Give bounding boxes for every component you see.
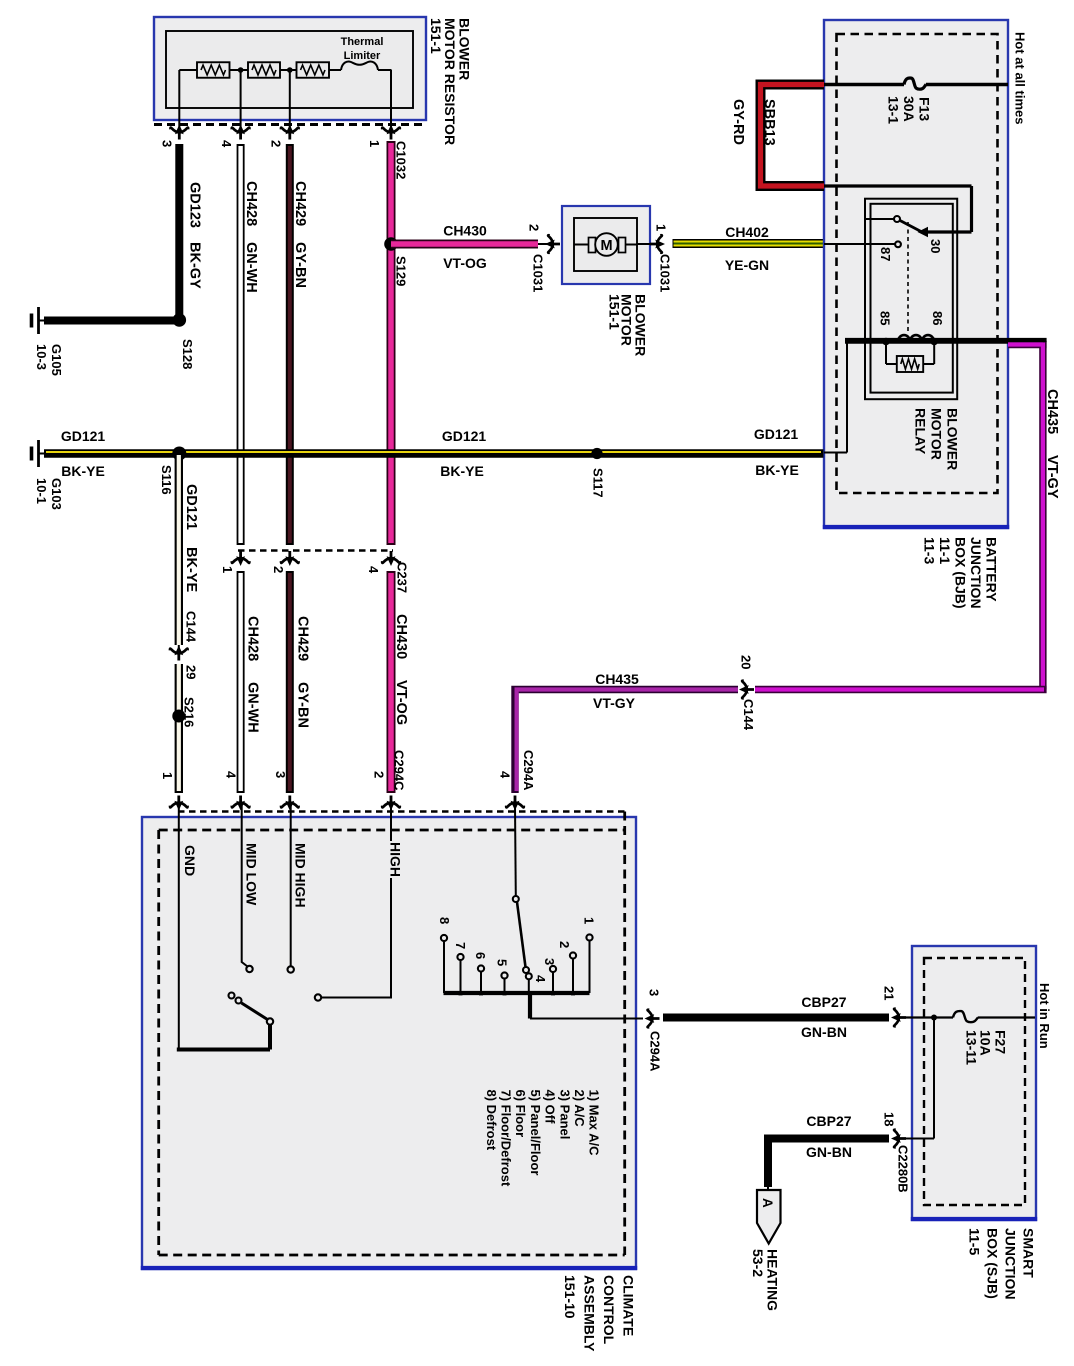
svg-text:VT-GY: VT-GY — [1044, 455, 1060, 499]
svg-text:Hot in Run: Hot in Run — [1037, 983, 1052, 1049]
svg-text:C237: C237 — [395, 562, 410, 593]
pin 1 C1032 — [382, 125, 400, 140]
splice S129 — [384, 237, 398, 251]
wire CH435 VT-GY from relay (bright) — [1008, 341, 1047, 349]
svg-text:GY-RD: GY-RD — [730, 99, 746, 145]
svg-text:BOX (BJB): BOX (BJB) — [953, 537, 969, 609]
coil dot right — [930, 338, 938, 346]
svg-text:C294A: C294A — [521, 750, 536, 791]
pin 3 C294C — [281, 796, 299, 811]
svg-text:86: 86 — [930, 311, 945, 325]
svg-text:4: 4 — [224, 771, 239, 779]
relay pin 87 — [824, 243, 895, 245]
svg-text:1: 1 — [160, 772, 175, 779]
climate fan switch arm — [242, 1003, 268, 1020]
svg-text:C144: C144 — [741, 699, 756, 731]
svg-text:VT-GY: VT-GY — [593, 695, 636, 711]
relay pin30 feed path — [824, 184, 972, 187]
svg-text:C1031: C1031 — [531, 254, 546, 292]
svg-text:4: 4 — [498, 771, 513, 779]
pin 2 C294C — [382, 796, 400, 811]
pin 4 C237 — [382, 551, 400, 566]
pin 21 SJB — [891, 1009, 906, 1027]
svg-text:S116: S116 — [159, 465, 174, 495]
pin 3 C1032 — [170, 125, 188, 140]
svg-text:2: 2 — [269, 140, 284, 147]
svg-text:3: 3 — [542, 958, 557, 965]
svg-text:G103: G103 — [49, 478, 64, 510]
resistor relay coil — [897, 356, 923, 372]
svg-text:2) A/C: 2) A/C — [572, 1090, 587, 1128]
svg-text:10-3: 10-3 — [34, 344, 49, 370]
svg-text:30: 30 — [928, 239, 943, 253]
svg-text:MID HIGH: MID HIGH — [293, 843, 309, 908]
svg-text:3: 3 — [273, 771, 288, 778]
wire motor to pin1 — [637, 243, 656, 245]
svg-text:SMART: SMART — [1021, 1228, 1037, 1278]
relay dashed link — [907, 222, 909, 334]
blower motor resistor box 151-1 — [154, 17, 426, 120]
svg-text:GN-WH: GN-WH — [243, 242, 259, 293]
svg-text:CH428: CH428 — [243, 181, 259, 226]
splice S128 — [173, 313, 187, 327]
svg-text:87: 87 — [878, 247, 893, 261]
junction dot b — [287, 67, 293, 73]
svg-text:18: 18 — [882, 1112, 897, 1126]
svg-text:CH430: CH430 — [443, 223, 487, 239]
svg-text:151-1: 151-1 — [607, 294, 623, 330]
resistor R-med2 — [297, 62, 330, 78]
connector C1032 dashed boundary — [154, 123, 426, 126]
wire CBP27 GN-BN lower — [768, 1139, 889, 1188]
svg-text:A: A — [760, 1198, 775, 1208]
svg-text:GY-BN: GY-BN — [295, 682, 311, 728]
svg-text:BOX (SJB): BOX (SJB) — [985, 1228, 1001, 1299]
svg-text:CONTROL: CONTROL — [601, 1275, 617, 1345]
pin 18 SJB — [891, 1130, 906, 1148]
svg-text:JUNCTION: JUNCTION — [968, 537, 984, 609]
svg-text:Limiter: Limiter — [344, 50, 381, 62]
svg-text:6) Floor: 6) Floor — [513, 1090, 528, 1138]
svg-text:4: 4 — [533, 975, 548, 983]
svg-text:BK-YE: BK-YE — [183, 547, 199, 592]
connector C144 CH435 — [739, 681, 754, 699]
SJB fuse F27 feed — [906, 1016, 953, 1018]
svg-text:BK-YE: BK-YE — [755, 462, 799, 478]
wire CH430 VT-OG lower — [387, 571, 396, 793]
svg-text:RELAY: RELAY — [913, 408, 929, 455]
svg-text:CH430: CH430 — [393, 614, 409, 659]
svg-text:10-1: 10-1 — [34, 478, 49, 504]
svg-text:20: 20 — [739, 655, 754, 669]
relay switch arm — [900, 221, 921, 232]
BJB internal link to GD121 — [846, 342, 848, 453]
coil dot left — [882, 338, 890, 346]
svg-text:1: 1 — [367, 140, 382, 147]
pin 1 C294C — [170, 796, 188, 811]
svg-text:2: 2 — [372, 771, 387, 778]
connector C144 inline — [170, 646, 188, 661]
resistor R-med1 — [248, 62, 280, 78]
svg-text:GND: GND — [182, 845, 198, 876]
svg-text:151-1: 151-1 — [428, 18, 444, 54]
splice S116 — [172, 447, 186, 461]
wire CH430 VT-OG upper vertical — [387, 141, 396, 545]
wire CH429 GY-BN lower — [286, 571, 294, 793]
relay coil line — [845, 339, 1009, 343]
relay pivot — [866, 218, 895, 220]
svg-text:4: 4 — [219, 140, 234, 148]
wire internal resistor chain — [179, 69, 197, 71]
svg-text:3: 3 — [647, 989, 662, 996]
svg-text:1: 1 — [582, 917, 597, 924]
svg-text:GD121: GD121 — [183, 484, 199, 530]
svg-text:8: 8 — [437, 917, 452, 924]
svg-text:MID LOW: MID LOW — [244, 843, 260, 906]
climate MID LOW circuit — [242, 806, 248, 967]
svg-text:13-1: 13-1 — [886, 96, 902, 124]
svg-text:S117: S117 — [591, 468, 606, 498]
svg-text:C294C: C294C — [392, 750, 407, 791]
splice S216 — [172, 710, 185, 723]
svg-text:30A: 30A — [901, 96, 917, 122]
pin 2 C1031 — [545, 235, 560, 253]
pin 1 C237 — [232, 551, 250, 566]
svg-text:CH435: CH435 — [1044, 389, 1060, 434]
svg-text:CH429: CH429 — [292, 181, 308, 226]
svg-text:4) Off: 4) Off — [543, 1090, 558, 1125]
blower motor relay outer box — [865, 199, 957, 400]
wire GD121 BK-YE horizontal — [44, 449, 824, 457]
svg-text:CBP27: CBP27 — [806, 1113, 851, 1129]
blower motor box 151-1 — [562, 206, 650, 284]
climate MID HIGH circuit — [290, 806, 292, 966]
svg-text:6: 6 — [473, 952, 488, 959]
svg-text:GN-BN: GN-BN — [801, 1024, 847, 1040]
svg-text:CH428: CH428 — [245, 616, 261, 661]
svg-text:C1032: C1032 — [394, 141, 409, 179]
hot at all times feed line with fuse F13 — [824, 83, 904, 86]
resistor assembly inner box — [166, 31, 413, 108]
pin 1 C1031 — [650, 235, 665, 253]
svg-text:85: 85 — [878, 311, 893, 325]
fuse F27 — [953, 1011, 978, 1022]
svg-text:29: 29 — [184, 665, 199, 679]
svg-text:SBB13: SBB13 — [761, 99, 777, 146]
svg-text:CH435: CH435 — [595, 671, 639, 687]
wire CH435 VT-GY left segment — [515, 690, 738, 794]
climate mode wiper feed — [514, 806, 517, 896]
svg-text:JUNCTION: JUNCTION — [1003, 1228, 1019, 1300]
svg-text:GD121: GD121 — [442, 428, 487, 444]
svg-text:13-11: 13-11 — [964, 1030, 980, 1065]
svg-text:S216: S216 — [182, 697, 197, 727]
svg-text:GD121: GD121 — [754, 426, 799, 442]
svg-text:GD123: GD123 — [187, 182, 203, 228]
svg-text:1: 1 — [220, 566, 235, 573]
svg-text:7: 7 — [453, 942, 468, 949]
wire CH428 GN-WH lower — [237, 571, 245, 793]
svg-text:VT-OG: VT-OG — [393, 680, 409, 725]
fuse F13 — [904, 78, 926, 89]
svg-text:11-3: 11-3 — [922, 537, 938, 564]
wire CH428 GN-WH upper vertical — [237, 144, 245, 545]
svg-text:HIGH: HIGH — [388, 842, 404, 877]
svg-text:53-2: 53-2 — [750, 1249, 766, 1277]
svg-text:Thermal: Thermal — [341, 36, 384, 48]
svg-text:2: 2 — [527, 224, 542, 231]
svg-text:151-10: 151-10 — [562, 1275, 578, 1319]
motor symbol M — [574, 244, 637, 246]
svg-text:S128: S128 — [180, 339, 195, 369]
svg-text:21: 21 — [882, 986, 897, 1000]
svg-text:S129: S129 — [394, 256, 409, 286]
svg-text:MOTOR: MOTOR — [929, 408, 945, 460]
svg-text:CH402: CH402 — [725, 224, 769, 240]
pin 4 C1032 — [232, 125, 250, 140]
svg-text:M: M — [600, 238, 612, 254]
svg-text:GN-WH: GN-WH — [245, 682, 261, 733]
wire GD123 to ground G105 — [44, 317, 179, 325]
svg-text:1) Max A/C: 1) Max A/C — [587, 1090, 602, 1157]
svg-text:C1031: C1031 — [658, 254, 673, 292]
svg-text:F27: F27 — [993, 1030, 1009, 1054]
wire CH402 YE-GN — [673, 239, 824, 248]
climate inner dashed boundary — [159, 829, 625, 832]
battery junction box (BJB) — [824, 20, 1008, 528]
pin 4 C294A — [506, 796, 524, 811]
wire CH429 GY-BN upper vertical — [286, 144, 294, 545]
svg-text:CBP27: CBP27 — [801, 994, 846, 1010]
internal drop wires to pins — [178, 70, 180, 131]
svg-text:BATTERY: BATTERY — [984, 537, 1000, 602]
wire SBB13 GY-RD — [761, 85, 825, 187]
pin 2 C237 — [281, 551, 299, 566]
pin 2 C1032 — [281, 125, 299, 140]
resistor R-low — [197, 62, 230, 78]
svg-text:5) Panel/Floor: 5) Panel/Floor — [528, 1090, 543, 1176]
svg-text:G105: G105 — [49, 344, 64, 376]
climate control assembly box — [142, 817, 636, 1269]
ground G103 — [38, 453, 46, 455]
thermal limiter element — [341, 62, 378, 70]
climate mode switch bank — [444, 991, 590, 995]
smart junction box (SJB) — [912, 946, 1036, 1220]
svg-text:3) Panel: 3) Panel — [557, 1090, 572, 1140]
svg-text:F13: F13 — [917, 97, 933, 121]
svg-text:BK-GY: BK-GY — [187, 242, 203, 289]
climate HIGH circuit — [322, 806, 392, 998]
wire CBP27 GN-BN upper — [663, 1014, 889, 1022]
relay coil — [898, 335, 934, 341]
SJB junction dot — [931, 1015, 937, 1021]
pin 3 C294A — [645, 1010, 660, 1028]
svg-text:3: 3 — [160, 140, 175, 147]
svg-text:BK-YE: BK-YE — [61, 463, 105, 479]
wire CH430 VT-OG horizontal — [391, 240, 538, 249]
wire GD123 BK-GY vertical — [175, 144, 183, 320]
svg-text:1: 1 — [654, 224, 669, 231]
svg-text:CLIMATE: CLIMATE — [621, 1275, 637, 1336]
connector C237 dashed line — [238, 549, 393, 551]
svg-text:BK-YE: BK-YE — [440, 463, 484, 479]
svg-text:VT-OG: VT-OG — [443, 255, 487, 271]
climate GND circuit — [178, 806, 180, 1050]
svg-text:Hot at all times: Hot at all times — [1013, 32, 1028, 124]
relay coil resistor — [885, 342, 887, 365]
junction dot a — [238, 67, 244, 73]
svg-text:BLOWER: BLOWER — [945, 408, 961, 470]
svg-text:11-1: 11-1 — [937, 537, 953, 564]
svg-text:ASSEMBLY: ASSEMBLY — [582, 1275, 598, 1352]
svg-text:7) Floor/Defrost: 7) Floor/Defrost — [499, 1090, 514, 1187]
svg-text:11-5: 11-5 — [967, 1228, 983, 1255]
wire GD121 BK-YE vertical — [175, 454, 183, 646]
svg-text:C2280B: C2280B — [896, 1145, 911, 1193]
mode bus exit wire — [528, 993, 532, 1019]
svg-text:8) Defrost: 8) Defrost — [484, 1090, 499, 1151]
svg-text:GN-BN: GN-BN — [806, 1144, 852, 1160]
svg-text:GD121: GD121 — [61, 428, 106, 444]
climate mode wiper arm — [517, 902, 526, 967]
mode bus ticks — [459, 991, 463, 995]
pin 4 C294C — [232, 796, 250, 811]
svg-text:4: 4 — [366, 566, 381, 574]
svg-text:2: 2 — [271, 566, 286, 573]
svg-text:CH429: CH429 — [295, 616, 311, 661]
svg-text:GY-BN: GY-BN — [292, 242, 308, 288]
off-page pointer A to HEATING — [767, 1187, 769, 1192]
svg-text:5: 5 — [495, 959, 510, 966]
svg-text:YE-GN: YE-GN — [725, 257, 769, 273]
ground G105 — [38, 320, 46, 322]
splice S117 — [591, 448, 602, 459]
svg-text:C294A: C294A — [648, 1031, 663, 1072]
svg-text:C144: C144 — [184, 611, 199, 643]
connector C294 dashed line — [178, 810, 625, 812]
svg-text:2: 2 — [557, 941, 572, 948]
